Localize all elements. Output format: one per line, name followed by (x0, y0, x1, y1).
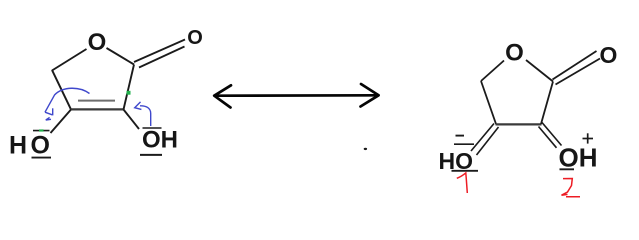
blue curved electron-pushing arrow (left), curve body (45, 88, 90, 112)
svg-text:OH: OH (142, 127, 178, 154)
red handwritten numeral 2 under right hydroxyl (562, 179, 581, 197)
red handwritten numeral 1 under left hydroxyl (457, 173, 468, 193)
svg-text:OH: OH (559, 143, 598, 173)
M2 left hydroxyl underline (452, 170, 479, 172)
M2 right hydroxyl underline (560, 168, 575, 170)
M2 bond C5-C4 (ring left) (481, 81, 496, 124)
M2 bond C3-C1 (ring right) (541, 82, 553, 125)
green annotation dash on HO bar (39, 129, 44, 131)
M2 bond O-C5 (ring top-left) (481, 61, 504, 82)
M1 bond C3-C1 (ring right) (124, 65, 135, 110)
M1 right hydroxyl lone-pair bar above O (143, 127, 162, 129)
svg-text:HO: HO (9, 132, 54, 160)
M1 bond O1-C5 (ring top-left) (52, 49, 87, 71)
M2 bond O-C1 (ring top-right) (526, 60, 553, 82)
M2 carbonyl double bond C1=O line b (556, 59, 601, 85)
M1 bond C5-C4 (ring left) (52, 70, 71, 110)
svg-text:O: O (600, 42, 618, 68)
M2 left C4=O double bond line b (477, 127, 499, 155)
M2 right C3=O double bond line b (539, 127, 557, 148)
M1 left hydroxyl underline (lone pair) (32, 157, 52, 159)
M1 carbonyl double bond C1=O line a (134, 40, 185, 63)
blue left arrow small tail tick (46, 117, 51, 120)
blue right arrow head (135, 102, 142, 110)
M1 carbonyl double bond C1=O line b (139, 47, 185, 68)
svg-text:O: O (187, 27, 203, 49)
M2 carbonyl double bond C1=O line a (553, 51, 597, 80)
M1 bond C3-O(H) to right hydroxyl (124, 110, 140, 130)
blue left arrow head barb bottom (45, 112, 52, 115)
M1 bond C4-O(H) to left hydroxyl (51, 110, 72, 134)
blue curved electron-pushing arrow (right), curve body (140, 106, 151, 126)
svg-text:O: O (505, 40, 524, 67)
green annotation dot on C3-C1 bond (127, 91, 131, 95)
resonance arrow right head (361, 84, 379, 107)
M2 plus charge sign above OH: horizontal stroke (583, 138, 594, 140)
M1 bond C4-C3 main line (ring bottom) (71, 108, 125, 110)
M2 bond C4-C3 (ring bottom) (496, 123, 542, 125)
M1 left hydroxyl lone-pair bar above O (33, 130, 50, 132)
svg-text:O: O (88, 29, 107, 56)
resonance arrow left head (214, 85, 231, 107)
M2 right C3=O double bond line a (542, 123, 562, 146)
resonance double-headed arrow shaft (215, 94, 378, 97)
blue left arrow head barb right vertical (52, 108, 54, 115)
stray small black dot (364, 148, 367, 150)
M2 minus charge sign above HO (456, 135, 465, 137)
M2 plus charge sign above OH: vertical stroke (587, 133, 589, 143)
M1 bond O1-C1 (ring top-right) (107, 48, 135, 65)
M1 bond C4=C3 inner double-bond line (78, 100, 115, 102)
M2 lone-pair bar above HO oxygen (454, 143, 474, 145)
M1 right hydroxyl underline (lone pair) (140, 154, 162, 156)
M2 left C4=O double bond line a (471, 124, 494, 152)
